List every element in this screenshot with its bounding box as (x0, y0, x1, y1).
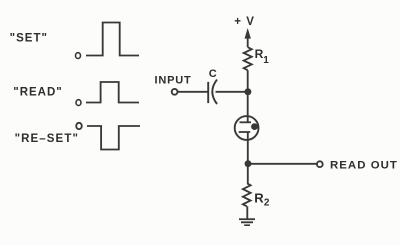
label R2 (254, 190, 270, 208)
svg-text:"SET": "SET" (10, 33, 48, 45)
svg-text:INPUT: INPUT (155, 75, 192, 87)
wire node B to read out terminal (248, 163, 317, 165)
svg-text:"RE–SET": "RE–SET" (15, 133, 79, 145)
capacitor C right curved plate (212, 80, 217, 104)
wire SET pulse waveform (86, 23, 139, 56)
capacitor C left plate (207, 82, 209, 103)
resistor R2 (243, 183, 251, 206)
svg-text:C: C (209, 68, 217, 80)
ground (239, 219, 255, 225)
node 0 marker (SET waveform zero level) (76, 53, 81, 59)
read out terminal (317, 161, 323, 167)
node 0 marker (READ waveform zero level) (76, 100, 81, 106)
node 0 marker (RE-SET waveform zero level) (76, 123, 82, 129)
svg-text:1: 1 (263, 55, 269, 66)
svg-text:2: 2 (264, 198, 270, 209)
neon lamp top electrode bar (240, 121, 252, 123)
svg-text:"READ": "READ" (13, 86, 63, 98)
svg-text:+ V: + V (234, 16, 255, 28)
wire capacitor to node A (216, 91, 248, 93)
wire node A to neon lamp top electrode (247, 92, 249, 123)
neon lamp V1 envelope (235, 116, 259, 140)
wire RE-SET inverted pulse waveform (87, 126, 140, 150)
wire input terminal to capacitor (178, 91, 208, 93)
+V arrow head (245, 28, 251, 39)
wire neon lamp bottom electrode to node B (247, 132, 249, 164)
neon lamp gas-fill dot (251, 123, 258, 130)
wire READ pulse waveform (86, 82, 139, 103)
wire R2 to ground (246, 206, 248, 219)
svg-text:R: R (254, 190, 264, 205)
node A junction dot (244, 88, 251, 95)
wire node B to R2 (247, 164, 249, 184)
neon lamp bottom electrode bar (239, 131, 251, 133)
wire +V to R1 (247, 36, 249, 47)
input terminal (172, 89, 178, 95)
resistor R1 (244, 47, 252, 70)
svg-text:READ OUT: READ OUT (330, 159, 398, 171)
wire R1 to node A (247, 70, 249, 92)
label R1 (255, 47, 270, 66)
node B junction dot (245, 160, 252, 167)
